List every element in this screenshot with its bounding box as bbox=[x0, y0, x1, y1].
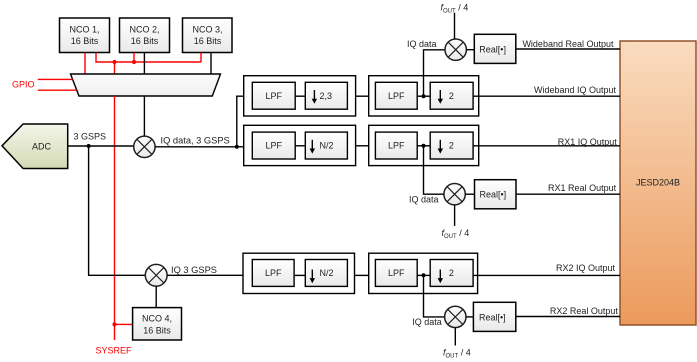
wire RX1 IQ output bbox=[473, 145, 620, 147]
svg-text:ADC: ADC bbox=[32, 142, 52, 152]
block LPF RX1 2 bbox=[375, 132, 417, 159]
svg-text:LPF: LPF bbox=[388, 91, 405, 101]
svg-text:N/2: N/2 bbox=[320, 141, 334, 151]
block LPF RX2 1 bbox=[252, 260, 294, 287]
wire branch up to wideband row bbox=[237, 96, 244, 147]
svg-text:16 Bits: 16 Bits bbox=[71, 36, 99, 46]
wire SYSREF red vertical below mux bbox=[114, 96, 116, 340]
svg-text:Wideband IQ Output: Wideband IQ Output bbox=[534, 85, 617, 95]
wire LPF2 to decimator2 wideband bbox=[417, 95, 430, 97]
wire ADC to RX2 path bbox=[89, 146, 146, 275]
mixer M2 wideband real bbox=[445, 39, 466, 60]
wire NCO2 stub to red bus bbox=[133, 53, 135, 62]
svg-text:Wideband Real Output: Wideband Real Output bbox=[522, 39, 614, 49]
mixer M4 RX2 input bbox=[145, 264, 167, 286]
wire LPF to decimator RX2 bbox=[294, 274, 305, 276]
block decimate-by-N/2 RX2 bbox=[305, 260, 347, 287]
block NCO2 bbox=[120, 18, 170, 53]
wire LPF to decimator RX1 bbox=[295, 145, 305, 147]
junction dot RX1 tap bbox=[422, 144, 426, 148]
svg-text:16 Bits: 16 Bits bbox=[143, 326, 171, 336]
wire LPF2 to decimator2 RX2 bbox=[417, 274, 430, 276]
svg-text:JESD204B: JESD204B bbox=[636, 178, 680, 188]
wire fOUT/4 into M5 bbox=[454, 328, 456, 346]
svg-text:RX1 Real Output: RX1 Real Output bbox=[548, 183, 617, 193]
block NCO4 bbox=[133, 308, 182, 340]
block Real[.] RX1 bbox=[475, 180, 517, 209]
svg-text:LPF: LPF bbox=[265, 268, 282, 278]
wire mixer M1 output bbox=[155, 146, 244, 148]
junction dot after M1 bbox=[235, 145, 239, 149]
wire wideband stage1 to stage2 bbox=[356, 95, 369, 97]
block decimate-by-2 wideband bbox=[430, 82, 473, 109]
svg-text:IQ data: IQ data bbox=[412, 317, 442, 327]
svg-text:LPF: LPF bbox=[388, 140, 405, 150]
wire NCO1 stub to red bus bbox=[96, 53, 201, 62]
wire LPF2 to decimator2 RX1 bbox=[417, 145, 430, 147]
wire fOUT/4 into M2 bbox=[454, 13, 456, 39]
svg-text:16 Bits: 16 Bits bbox=[131, 36, 159, 46]
block LPF RX1 1 bbox=[252, 132, 295, 159]
wire GPIO line 2 bbox=[38, 89, 77, 91]
wire RX1 real output bbox=[516, 193, 620, 195]
svg-text:SYSREF: SYSREF bbox=[96, 346, 133, 356]
wire M4 to NCO4 bbox=[155, 286, 157, 307]
svg-text:2: 2 bbox=[449, 141, 454, 151]
wire RX2 IQ output bbox=[473, 274, 620, 276]
wire RX2 real output bbox=[516, 316, 620, 318]
wire M3 to Real block bbox=[465, 193, 474, 195]
block decimate-by-2 RX2 bbox=[430, 260, 473, 287]
block NCO3 bbox=[183, 18, 233, 53]
mux trapezoid bbox=[71, 74, 221, 96]
svg-text:Real[•]: Real[•] bbox=[479, 44, 506, 54]
wire NCO2 to mux (black) bbox=[143, 53, 145, 74]
wire wideband real output bbox=[516, 48, 620, 50]
wire red bus branch into mux bbox=[114, 62, 116, 74]
svg-text:Real[•]: Real[•] bbox=[480, 190, 507, 200]
svg-text:N/2: N/2 bbox=[320, 268, 334, 278]
wire RX1 stage1 to stage2 bbox=[356, 145, 369, 147]
svg-text:LPF: LPF bbox=[388, 268, 405, 278]
wire tap up to wideband real mixer bbox=[424, 50, 445, 96]
wire NCO1 to mux (red) bbox=[84, 53, 86, 74]
svg-text:NCO 4,: NCO 4, bbox=[142, 314, 172, 324]
junction dot wideband tap bbox=[422, 94, 426, 98]
svg-text:NCO 3,: NCO 3, bbox=[192, 25, 222, 35]
wire M5 to Real block bbox=[466, 316, 473, 318]
block decimate-by-2 RX1 bbox=[430, 132, 473, 159]
svg-text:LPF: LPF bbox=[265, 91, 282, 101]
block Real[.] RX2 bbox=[473, 302, 515, 331]
wire NCO3 to mux (black) bbox=[210, 53, 212, 74]
block LPF wideband 2 bbox=[375, 82, 417, 109]
svg-text:2,3: 2,3 bbox=[320, 91, 333, 101]
mixer M1 bbox=[134, 136, 155, 157]
svg-text:LPF: LPF bbox=[265, 140, 282, 150]
wire fOUT/4 into M3 bbox=[454, 205, 456, 226]
mixer M5 RX2 real bbox=[445, 306, 466, 327]
junction red dot at NCO4 branch bbox=[112, 322, 116, 326]
wire LPF to decimator wideband bbox=[295, 95, 305, 97]
container wideband filter stage 1 bbox=[244, 76, 356, 116]
junction red bus dot B bbox=[132, 60, 136, 64]
wire NCO3 stub to red bus bbox=[200, 53, 202, 62]
svg-text:IQ data: IQ data bbox=[407, 39, 437, 49]
svg-text:RX1 IQ Output: RX1 IQ Output bbox=[558, 137, 618, 147]
wire tap down to RX2 real mixer bbox=[424, 275, 445, 317]
wire GPIO line 1 bbox=[38, 78, 73, 80]
svg-text:RX2 IQ Output: RX2 IQ Output bbox=[556, 263, 616, 273]
svg-text:2: 2 bbox=[449, 91, 454, 101]
mixer M3 RX1 real bbox=[444, 184, 465, 205]
junction dot ADC output bbox=[87, 144, 91, 148]
wire ADC output bbox=[68, 145, 134, 147]
container RX1 filter stage 1 bbox=[244, 125, 356, 165]
block LPF wideband 1 bbox=[252, 82, 295, 109]
svg-text:16 Bits: 16 Bits bbox=[194, 36, 222, 46]
svg-text:RX2 Real Output: RX2 Real Output bbox=[550, 306, 619, 316]
wire mux to mixer M1 bbox=[143, 96, 145, 136]
svg-text:NCO 2,: NCO 2, bbox=[129, 25, 159, 35]
block ADC bbox=[2, 124, 68, 169]
wire M2 to Real block bbox=[466, 49, 474, 51]
block Real[.] wideband bbox=[474, 34, 516, 63]
junction dot RX2 tap bbox=[422, 273, 426, 277]
wire tap down to RX1 real mixer bbox=[424, 146, 444, 194]
svg-text:IQ data: IQ data bbox=[409, 195, 439, 205]
block decimate-by-N/2 RX1 bbox=[305, 132, 347, 159]
container RX1 filter stage 2 bbox=[369, 125, 479, 165]
block decimate-by-2,3 bbox=[305, 82, 347, 109]
container RX2 filter stage 2 bbox=[369, 253, 478, 293]
wire M4 output to RX2 stage1 bbox=[167, 274, 243, 276]
block JESD204B bbox=[620, 41, 696, 325]
svg-text:2: 2 bbox=[449, 268, 454, 278]
junction red bus dot A bbox=[112, 60, 116, 64]
wire RX2 stage1 to stage2 bbox=[355, 274, 369, 276]
block NCO1 bbox=[60, 18, 110, 53]
svg-text:NCO 1,: NCO 1, bbox=[69, 25, 99, 35]
svg-text:3 GSPS: 3 GSPS bbox=[74, 132, 107, 142]
svg-text:GPIO: GPIO bbox=[12, 80, 35, 90]
svg-text:IQ data, 3 GSPS: IQ data, 3 GSPS bbox=[161, 135, 230, 145]
wire red branch to NCO4 bbox=[115, 323, 133, 325]
container wideband filter stage 2 bbox=[369, 76, 479, 116]
wire wideband IQ output bbox=[473, 95, 620, 97]
svg-text:IQ 3 GSPS: IQ 3 GSPS bbox=[171, 265, 217, 275]
container RX2 filter stage 1 bbox=[243, 253, 355, 293]
svg-text:Real[•]: Real[•] bbox=[479, 312, 506, 322]
block LPF RX2 2 bbox=[375, 260, 417, 287]
